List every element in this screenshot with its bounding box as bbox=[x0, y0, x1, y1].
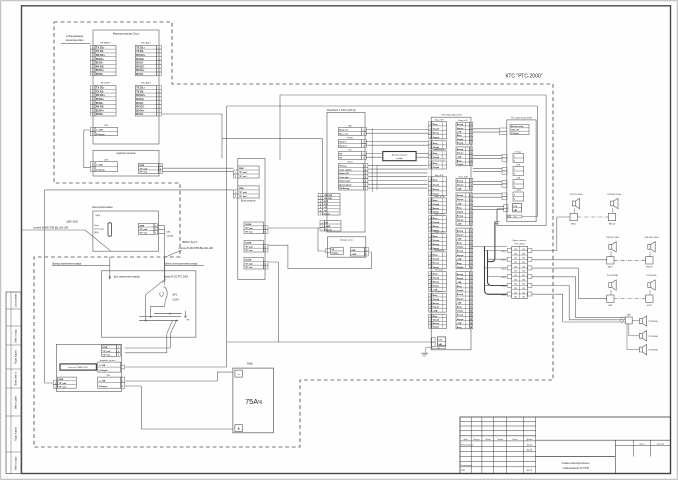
svg-text:43.22: 43.22 bbox=[527, 443, 533, 446]
socket table D bbox=[244, 241, 264, 253]
dash-dot link group1 bbox=[577, 216, 608, 218]
cluster horn 2 bbox=[639, 331, 646, 341]
svg-text:FE LAN 1: FE LAN 1 bbox=[141, 42, 151, 45]
svg-text:включения: включения bbox=[94, 229, 104, 231]
svg-text:"Ф" вкл: "Ф" вкл bbox=[239, 195, 248, 198]
svg-text:Общий: Общий bbox=[457, 163, 463, 166]
svg-text:QВ1: QВ1 bbox=[166, 232, 171, 234]
svg-text:1 +12В: 1 +12В bbox=[99, 365, 106, 367]
svg-text:Разработал: Разработал bbox=[461, 444, 474, 446]
svg-text:Аварийн. сигнал: Аварийн. сигнал bbox=[100, 359, 116, 362]
svg-text:КВ6.1: КВ6.1 bbox=[571, 223, 576, 225]
svg-text:BI D3-: BI D3- bbox=[136, 61, 144, 65]
svg-text:"Ф" вкл: "Ф" вкл bbox=[245, 249, 254, 252]
svg-text:+12В СЦБ: +12В СЦБ bbox=[324, 195, 333, 197]
dash-dot link group2 bbox=[614, 259, 646, 261]
svg-text:Л1: Л1 bbox=[523, 288, 525, 290]
svg-text:"Ф" раб: "Ф" раб bbox=[239, 191, 248, 194]
svg-text:РСЛ-2/П0Вт: РСЛ-2/П0Вт bbox=[607, 275, 618, 277]
speaker group1 horn B bbox=[611, 198, 618, 208]
terminal 220V table left bbox=[58, 377, 77, 388]
wire socket D to charger bbox=[269, 245, 372, 268]
wire cisco lan to L3 bbox=[162, 114, 222, 158]
wire to cluster horn2 bbox=[629, 324, 640, 336]
svg-text:FE WAN 4: FE WAN 4 bbox=[100, 42, 111, 45]
svg-text:43.22: 43.22 bbox=[527, 449, 533, 452]
svg-text:Л1: Л1 bbox=[515, 279, 517, 281]
svg-text:АКБ: АКБ bbox=[247, 362, 253, 366]
wires IZ to door sensor bbox=[366, 153, 383, 155]
svg-text:шкафа: шкафа bbox=[396, 157, 403, 160]
speaker group2 junction A bbox=[607, 257, 614, 264]
svg-text:Выход: Выход bbox=[457, 230, 464, 232]
svg-text:Инв.№ подл.: Инв.№ подл. bbox=[15, 328, 18, 342]
wires monoblock to CKS bbox=[366, 129, 428, 131]
wire line 1 to speakers bbox=[532, 217, 570, 251]
svg-text:учтен В АВ.СПВ.БЦ.02к-ЭМ: учтен В АВ.СПВ.БЦ.02к-ЭМ bbox=[33, 225, 69, 229]
svg-text:+12В: +12В bbox=[457, 224, 462, 226]
svg-text:2: 2 bbox=[430, 147, 431, 149]
svg-text:Общий: Общий bbox=[433, 203, 439, 206]
svg-text:2: 2 bbox=[430, 167, 431, 169]
svg-text:RX D2+: RX D2+ bbox=[96, 93, 106, 97]
svg-text:2: 2 bbox=[235, 176, 236, 178]
svg-text:RX D2-: RX D2- bbox=[136, 105, 145, 109]
svg-text:Общий: Общий bbox=[457, 289, 463, 292]
svg-text:Тип 1: Тип 1 bbox=[437, 291, 441, 293]
power adapter box bbox=[93, 150, 159, 176]
svg-text:1: 1 bbox=[514, 182, 515, 184]
svg-text:3: 3 bbox=[322, 229, 323, 231]
svg-text:Выход: Выход bbox=[433, 244, 440, 246]
svg-text:Корпус: Корпус bbox=[457, 153, 464, 155]
svg-text:"Ф" вкл: "Ф" вкл bbox=[245, 266, 254, 269]
svg-text:Корпус: Корпус bbox=[433, 327, 440, 329]
svg-text:12В Выход: 12В Выход bbox=[339, 188, 350, 190]
cross panel table bbox=[512, 246, 528, 298]
svg-text:BI D4-: BI D4- bbox=[136, 112, 144, 116]
svg-text:Выход: Выход bbox=[457, 251, 464, 253]
svg-text:ГРЛ/100Вт: ГРЛ/100Вт bbox=[649, 321, 658, 323]
svg-text:Общий: Общий bbox=[457, 246, 463, 249]
terminal group box bbox=[56, 344, 121, 391]
svg-text:FE LAN 3: FE LAN 3 bbox=[101, 82, 111, 85]
wire charger stub bbox=[318, 228, 326, 251]
wire to cluster horn1 bbox=[632, 320, 640, 322]
svg-text:+12В: +12В bbox=[457, 188, 462, 190]
wire container L1 bbox=[280, 95, 546, 226]
wires OKSO to CKS bbox=[368, 164, 427, 166]
svg-text:СГи: СГи bbox=[514, 206, 517, 208]
svg-text:220В: 220В bbox=[239, 188, 244, 190]
svg-text:+12В: +12В bbox=[433, 310, 438, 312]
svg-text:BI D4-: BI D4- bbox=[136, 72, 144, 76]
svg-text:Корпус: Корпус bbox=[433, 307, 440, 309]
svg-text:ГРЛ-1Б/У-100м: ГРЛ-1Б/У-100м bbox=[607, 194, 622, 196]
bold bus wires bbox=[488, 222, 495, 262]
svg-text:Общий: Общий bbox=[433, 239, 439, 242]
svg-text:Кросс-панель: Кросс-панель bbox=[513, 240, 528, 242]
svg-text:О1: О1 bbox=[522, 266, 524, 268]
electrical panel box bbox=[93, 211, 158, 251]
svg-text:О1: О1 bbox=[522, 249, 524, 251]
svg-text:СВВ: СВВ bbox=[351, 250, 356, 252]
svg-text:1: 1 bbox=[514, 156, 515, 158]
svg-text:Корпус: Корпус bbox=[457, 220, 464, 222]
wire bus down 1 bbox=[170, 321, 176, 335]
svg-text:Согласовано: Согласовано bbox=[16, 293, 18, 308]
svg-text:подключений СГТСВ: подключений СГТСВ bbox=[562, 466, 588, 470]
svg-text:ТХ D1-: ТХ D1- bbox=[96, 89, 104, 93]
UV NC row bbox=[507, 215, 522, 218]
svg-text:Л1: Л1 bbox=[523, 262, 525, 264]
svg-text:220В: 220В bbox=[239, 168, 244, 170]
speaker group1 junction B bbox=[608, 213, 615, 220]
svg-text:+12В: +12В bbox=[457, 259, 462, 261]
dashed boundary KTC PTC-2000 bbox=[34, 22, 553, 447]
svg-text:Выход: Выход bbox=[457, 124, 464, 126]
battery box 75Ah bbox=[233, 368, 274, 433]
svg-text:3: 3 bbox=[160, 172, 161, 174]
svg-text:2: 2 bbox=[514, 187, 515, 189]
svg-text:Выход: Выход bbox=[433, 133, 440, 135]
wire line 2 to speakers bbox=[532, 259, 607, 261]
svg-text:Пульт 2: Пульт 2 bbox=[339, 146, 346, 148]
svg-text:2: 2 bbox=[92, 134, 93, 136]
svg-text:5: 5 bbox=[430, 310, 431, 312]
svg-text:Выход: Выход bbox=[433, 282, 440, 284]
svg-text:BI D3+: BI D3+ bbox=[136, 97, 145, 101]
svg-text:Общий: Общий bbox=[433, 298, 439, 301]
dash-dot link group3 bbox=[614, 298, 646, 300]
svg-text:Л1: Л1 bbox=[515, 297, 517, 299]
svg-text:Старт сирены: Старт сирены bbox=[339, 169, 352, 171]
svg-text:"Ф" вкл: "Ф" вкл bbox=[58, 385, 67, 388]
svg-text:Кол.уч: Кол.уч bbox=[473, 439, 480, 441]
svg-text:Корпус: Корпус bbox=[433, 137, 440, 139]
svg-text:5: 5 bbox=[430, 290, 431, 292]
svg-text:ТХ D1+: ТХ D1+ bbox=[136, 85, 145, 89]
ground bus bbox=[154, 313, 182, 315]
wire container L2 bbox=[227, 106, 538, 367]
svg-text:7: 7 bbox=[320, 213, 321, 215]
svg-text:Общий: Общий bbox=[433, 127, 439, 130]
svg-text:8: 8 bbox=[92, 74, 93, 76]
svg-text:Авария УВ: Авария УВ bbox=[339, 172, 349, 175]
svg-text:RX D2-: RX D2- bbox=[136, 64, 145, 68]
svg-text:Вход с ВОР: Вход с ВОР bbox=[435, 175, 444, 177]
svg-text:Адаптер питания: Адаптер питания bbox=[117, 152, 137, 155]
svg-text:Авария двиг.: Авария двиг. bbox=[339, 180, 351, 183]
svg-text:220В: 220В bbox=[58, 379, 63, 381]
svg-text:Блок розеток: Блок розеток bbox=[241, 200, 256, 203]
svg-text:Изм: Изм bbox=[464, 439, 468, 441]
svg-text:Дата: Дата bbox=[526, 439, 533, 441]
wire jog vertical A bbox=[371, 129, 373, 193]
svg-text:2: 2 bbox=[235, 196, 236, 198]
speaker group2 horn A bbox=[609, 242, 616, 252]
svg-text:Общий: Общий bbox=[433, 258, 439, 261]
left margin stamp table bbox=[6, 292, 21, 474]
svg-text:РТС-2000 ЦКС/СУН: РТС-2000 ЦКС/СУН bbox=[441, 115, 461, 117]
wires CKS to UV bbox=[473, 128, 500, 130]
svg-text:-12В СЦБ: -12В СЦБ bbox=[324, 198, 333, 200]
svg-text:"Ф" раб: "Ф" раб bbox=[102, 350, 111, 353]
svg-text:Корпус: Корпус bbox=[457, 128, 464, 130]
svg-text:220В: 220В bbox=[139, 165, 144, 167]
UV table 1 bbox=[510, 125, 529, 135]
svg-text:КВ6.1Б: КВ6.1Б bbox=[609, 223, 616, 225]
svg-text:ГРЛ/100Вт: ГРЛ/100Вт bbox=[649, 350, 658, 352]
svg-text:Щит заземления шкафа: Щит заземления шкафа bbox=[114, 275, 140, 278]
svg-text:Кабель электропитания шкафа: Кабель электропитания шкафа bbox=[164, 262, 198, 265]
svg-text:Резерв базы: Резерв базы bbox=[435, 250, 445, 252]
panel 220V table bbox=[138, 223, 154, 234]
svg-text:RX D2-: RX D2- bbox=[96, 105, 105, 109]
socket table E bbox=[244, 258, 264, 270]
svg-text:Корпус: Корпус bbox=[457, 298, 464, 300]
svg-text:Корпус: Корпус bbox=[433, 248, 440, 250]
title block bbox=[460, 417, 671, 474]
svg-text:2: 2 bbox=[265, 250, 266, 252]
svg-text:Л1: Л1 bbox=[515, 288, 517, 290]
PE symbol bbox=[184, 311, 186, 318]
svg-text:BI D4+: BI D4+ bbox=[96, 68, 105, 72]
cluster horn 1 bbox=[639, 316, 646, 326]
cabinet box bbox=[102, 271, 196, 337]
svg-text:ТХ D1+: ТХ D1+ bbox=[96, 45, 105, 49]
svg-text:BI D3+: BI D3+ bbox=[96, 57, 105, 61]
svg-text:ТХ D1-: ТХ D1- bbox=[136, 49, 144, 53]
svg-text:Корпус: Корпус bbox=[457, 278, 464, 280]
svg-text:BI D3-: BI D3- bbox=[96, 101, 104, 105]
svg-text:Л1: Л1 bbox=[523, 297, 525, 299]
cross panel stubs and labels bbox=[507, 249, 512, 253]
svg-text:Выход: Выход bbox=[433, 263, 440, 265]
svg-text:3: 3 bbox=[471, 188, 472, 190]
svg-text:КВ6.3Б: КВ6.3Б bbox=[646, 267, 653, 269]
wire line 6 to speakers bbox=[532, 294, 625, 322]
svg-text:"Ф" раб: "Ф" раб bbox=[239, 171, 248, 174]
wire feed vertical bbox=[45, 190, 53, 383]
svg-text:Выход: Выход bbox=[457, 149, 464, 151]
svg-text:BI D4+: BI D4+ bbox=[96, 108, 105, 112]
svg-text:Абонент. вход: Абонент. вход bbox=[511, 125, 524, 128]
svg-text:Вход 1 от УВ: Вход 1 от УВ bbox=[434, 196, 443, 198]
svg-text:Выход на КУ: Выход на КУ bbox=[458, 120, 468, 122]
ground under UV bbox=[496, 210, 498, 222]
svg-text:1 +12В: 1 +12В bbox=[99, 381, 106, 383]
svg-text:Общий: Общий bbox=[433, 146, 439, 149]
svg-text:Корпус: Корпус bbox=[433, 212, 440, 214]
svg-text:Общий: Общий bbox=[433, 156, 439, 159]
svg-text:Вход 2 от КУ: Вход 2 от КУ bbox=[435, 232, 445, 234]
svg-text:Л1: Л1 bbox=[523, 253, 525, 255]
speaker group2 horn B bbox=[648, 242, 655, 252]
svg-text:1 +12В: 1 +12В bbox=[96, 130, 103, 132]
wire to FE WAN bbox=[61, 43, 90, 45]
svg-text:"Ф" вкл: "Ф" вкл bbox=[239, 175, 248, 178]
svg-text:Лист: Лист bbox=[484, 439, 491, 441]
svg-text:Л1: Л1 bbox=[515, 262, 517, 264]
svg-text:ГРЛ/100Вт: ГРЛ/100Вт bbox=[649, 336, 658, 338]
svg-text:+12В: +12В bbox=[457, 131, 462, 133]
svg-text:Л1: Л1 bbox=[515, 271, 517, 273]
svg-text:2: 2 bbox=[430, 157, 431, 159]
svg-text:3: 3 bbox=[118, 355, 119, 357]
svg-text:Корпус: Корпус bbox=[433, 194, 440, 196]
svg-text:2: 2 bbox=[122, 386, 123, 388]
antenna GLONASS box bbox=[60, 364, 96, 370]
svg-text:Шкаф КТСО РТС-2000: Шкаф КТСО РТС-2000 bbox=[164, 275, 189, 278]
svg-text:ТХ D1-: ТХ D1- bbox=[96, 49, 104, 53]
svg-text:+12В: +12В bbox=[457, 156, 462, 158]
svg-text:Выход: Выход bbox=[457, 274, 464, 276]
svg-text:Общий: Общий bbox=[433, 166, 439, 169]
alarm table bbox=[98, 362, 121, 372]
svg-text:"Ф" раб: "Ф" раб bbox=[245, 227, 254, 230]
svg-text:Электрощитовая: Электрощитовая bbox=[92, 205, 113, 209]
svg-text:Общий: Общий bbox=[433, 183, 439, 186]
svg-text:О1: О1 bbox=[514, 275, 516, 277]
svg-text:BI D3+: BI D3+ bbox=[96, 97, 105, 101]
svg-text:"Ф" раб: "Ф" раб bbox=[58, 382, 67, 385]
svg-text:Датчик двери: Датчик двери bbox=[339, 184, 351, 186]
adapter 220V table bbox=[138, 163, 158, 173]
charger table R bbox=[350, 247, 364, 256]
svg-text:+12В: +12В bbox=[457, 323, 462, 325]
PTC-2000 CKS box bbox=[431, 117, 471, 350]
svg-text:BI D3-: BI D3- bbox=[136, 101, 144, 105]
svg-text:О1: О1 bbox=[522, 292, 524, 294]
socket table C bbox=[244, 222, 264, 234]
wire line 4 to speakers bbox=[532, 277, 625, 318]
svg-text:RX D2+: RX D2+ bbox=[136, 93, 146, 97]
svg-text:2: 2 bbox=[366, 254, 367, 256]
svg-text:Лист: Лист bbox=[638, 443, 644, 445]
svg-text:ЛВС: ЛВС bbox=[348, 125, 353, 127]
svg-text:2: 2 bbox=[514, 199, 515, 201]
svg-text:6: 6 bbox=[471, 142, 472, 144]
svg-text:Пульт 1: Пульт 1 bbox=[339, 142, 347, 144]
wire container L3 bbox=[222, 139, 322, 194]
svg-text:ГВ-В: ГВ-В bbox=[516, 165, 520, 167]
breaker bar bbox=[108, 223, 112, 236]
monoblock UV table bbox=[325, 221, 342, 232]
svg-text:оператора связи: оператора связи bbox=[66, 40, 84, 42]
speaker group1 horn A bbox=[572, 198, 579, 208]
svg-text:2 Корпус: 2 Корпус bbox=[96, 134, 106, 136]
svg-text:1: 1 bbox=[430, 180, 431, 182]
svg-text:ТХ D1-: ТХ D1- bbox=[136, 89, 144, 93]
wire adapter 220V to socket block bbox=[163, 167, 234, 169]
svg-text:С220В: С220В bbox=[245, 243, 252, 245]
svg-text:+АКБ: +АКБ bbox=[351, 253, 357, 256]
door sensor box bbox=[383, 152, 416, 161]
svg-text:Общий: Общий bbox=[457, 266, 463, 269]
svg-text:"Ф" раб: "Ф" раб bbox=[139, 167, 148, 170]
svg-text:О1: О1 bbox=[522, 275, 524, 277]
svg-text:Выход: Выход bbox=[457, 294, 464, 296]
svg-text:Инв.№ дубл.: Инв.№ дубл. bbox=[15, 395, 18, 409]
svg-text:Антенна ГЛОНАСС/GPS: Антенна ГЛОНАСС/GPS bbox=[69, 366, 89, 369]
svg-text:Старт двиг.: Старт двиг. bbox=[339, 177, 350, 179]
svg-text:BI D4+: BI D4+ bbox=[136, 108, 145, 112]
speaker group2 junction B bbox=[646, 257, 653, 264]
svg-text:2: 2 bbox=[55, 386, 56, 388]
svg-text:1: 1 bbox=[514, 195, 515, 197]
router Cisco box bbox=[93, 30, 159, 144]
svg-text:Л1: Л1 bbox=[515, 253, 517, 255]
wire B feed bbox=[45, 189, 234, 191]
svg-text:QF1: QF1 bbox=[172, 293, 177, 296]
svg-text:75Ач: 75Ач bbox=[245, 397, 262, 406]
svg-text:Выход: Выход bbox=[433, 208, 440, 210]
svg-text:2 Корпус: 2 Корпус bbox=[99, 386, 109, 388]
wires panel to QB1 bbox=[158, 225, 165, 227]
svg-text:5: 5 bbox=[471, 164, 472, 166]
svg-text:Корпус: Корпус bbox=[457, 199, 464, 201]
svg-text:1 +12В: 1 +12В bbox=[96, 165, 103, 167]
socket table B bbox=[238, 186, 259, 198]
svg-text:2: 2 bbox=[265, 232, 266, 234]
svg-text:С220В: С220В bbox=[245, 260, 252, 262]
svg-text:2 Корпус: 2 Корпус bbox=[96, 170, 106, 172]
ground wire into cabinet bbox=[109, 257, 111, 279]
svg-text:КВ6.3: КВ6.3 bbox=[608, 267, 613, 269]
svg-text:Общий: Общий bbox=[457, 138, 463, 141]
svg-text:+24В: +24В bbox=[516, 178, 520, 180]
svg-text:НСЛ2: НСЛ2 bbox=[647, 305, 652, 307]
cluster cable ticks bbox=[620, 317, 623, 322]
svg-text:2 Общий: 2 Общий bbox=[99, 369, 109, 372]
svg-text:РСЛ/100Вт: РСЛ/100Вт bbox=[646, 275, 656, 277]
wire CKS to cross top bbox=[471, 245, 507, 247]
svg-text:О1: О1 bbox=[522, 258, 524, 260]
terminal 220V table bbox=[101, 345, 116, 356]
svg-text:Вых. лок.: Вых. лок. bbox=[339, 134, 349, 136]
svg-text:СГи: СГи bbox=[439, 339, 442, 341]
wire alarm to siren table bbox=[227, 341, 279, 343]
speaker group3 horn B bbox=[648, 280, 655, 290]
svg-text:220В: 220В bbox=[139, 225, 144, 227]
svg-text:10: 10 bbox=[470, 267, 472, 269]
svg-text:2: 2 bbox=[514, 161, 515, 163]
svg-text:О1: О1 bbox=[514, 258, 516, 260]
svg-text:8: 8 bbox=[92, 114, 93, 116]
svg-text:ЩРд: ЩРд bbox=[96, 215, 101, 217]
speaker group3 junction B bbox=[646, 295, 653, 302]
svg-text:"Ф" вкл: "Ф" вкл bbox=[139, 232, 148, 235]
svg-text:RX D2+: RX D2+ bbox=[96, 53, 106, 57]
wire line 3 to speakers bbox=[532, 268, 607, 299]
svg-text:1: 1 bbox=[92, 165, 93, 167]
svg-text:220В: 220В bbox=[102, 347, 107, 349]
PTC-2000 UV box bbox=[507, 120, 536, 222]
svg-text:"Ф" раб: "Ф" раб bbox=[139, 228, 148, 231]
svg-text:ЦВЗ 3х10: ЦВЗ 3х10 bbox=[67, 219, 79, 223]
svg-text:Корпус: Корпус bbox=[457, 255, 464, 257]
svg-text:Общий: Общий bbox=[433, 277, 439, 280]
svg-text:КТС "РТС-2000": КТС "РТС-2000" bbox=[505, 74, 542, 80]
svg-text:+12В В: +12В В bbox=[516, 190, 521, 192]
svg-text:–: – bbox=[238, 372, 240, 376]
svg-text:Выход: Выход bbox=[433, 323, 440, 325]
wire jog vertical B bbox=[376, 165, 378, 190]
svg-text:1: 1 bbox=[514, 169, 515, 171]
svg-text:+12В: +12В bbox=[457, 282, 462, 284]
wire 12V router to adapter bbox=[84, 130, 91, 168]
